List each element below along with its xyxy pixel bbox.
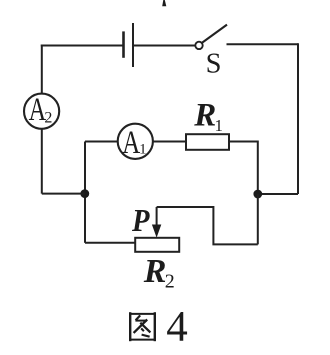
resistor R1 [186, 98, 229, 150]
ammeter A2 [24, 92, 59, 129]
node junction left [80, 189, 89, 198]
wire left link [42, 193, 85, 195]
svg-text:R: R [143, 253, 167, 290]
caption character tu (figure) [129, 312, 156, 341]
wire bottom-left horizontal [85, 242, 135, 244]
ammeter A1 [118, 124, 153, 161]
node junction right [253, 190, 262, 199]
rheostat R2 [135, 238, 179, 293]
wire right-dot link [258, 193, 298, 195]
slider P wiper arrow [131, 202, 161, 238]
svg-text:P: P [131, 202, 150, 238]
wire switch-to-right-corner [227, 43, 299, 45]
wire A1-to-R1 [154, 141, 187, 143]
wire top-left horizontal [41, 45, 123, 47]
svg-text:2: 2 [165, 271, 175, 293]
wire slider path [157, 207, 258, 244]
wire inner-left vertical [84, 142, 86, 243]
svg-text:1: 1 [215, 116, 224, 135]
wire left vertical upper [41, 45, 43, 95]
stray cropped mark top [162, 0, 166, 6]
wire R1-to-right-down [229, 142, 258, 191]
wire right vertical [297, 43, 299, 194]
caption numeral 4 [166, 304, 188, 351]
svg-text:1: 1 [139, 142, 147, 158]
battery [124, 23, 134, 67]
wire inner-left-to-A1 [85, 141, 118, 143]
svg-text:S: S [206, 49, 222, 80]
svg-text:2: 2 [44, 110, 52, 127]
wire right lower vertical [257, 194, 259, 244]
wire left vertical lower [41, 129, 43, 194]
wire battery-to-switch [134, 45, 195, 47]
switch S [195, 25, 227, 80]
svg-text:R: R [193, 98, 216, 134]
svg-text:4: 4 [166, 304, 188, 351]
svg-text:A: A [122, 125, 140, 161]
